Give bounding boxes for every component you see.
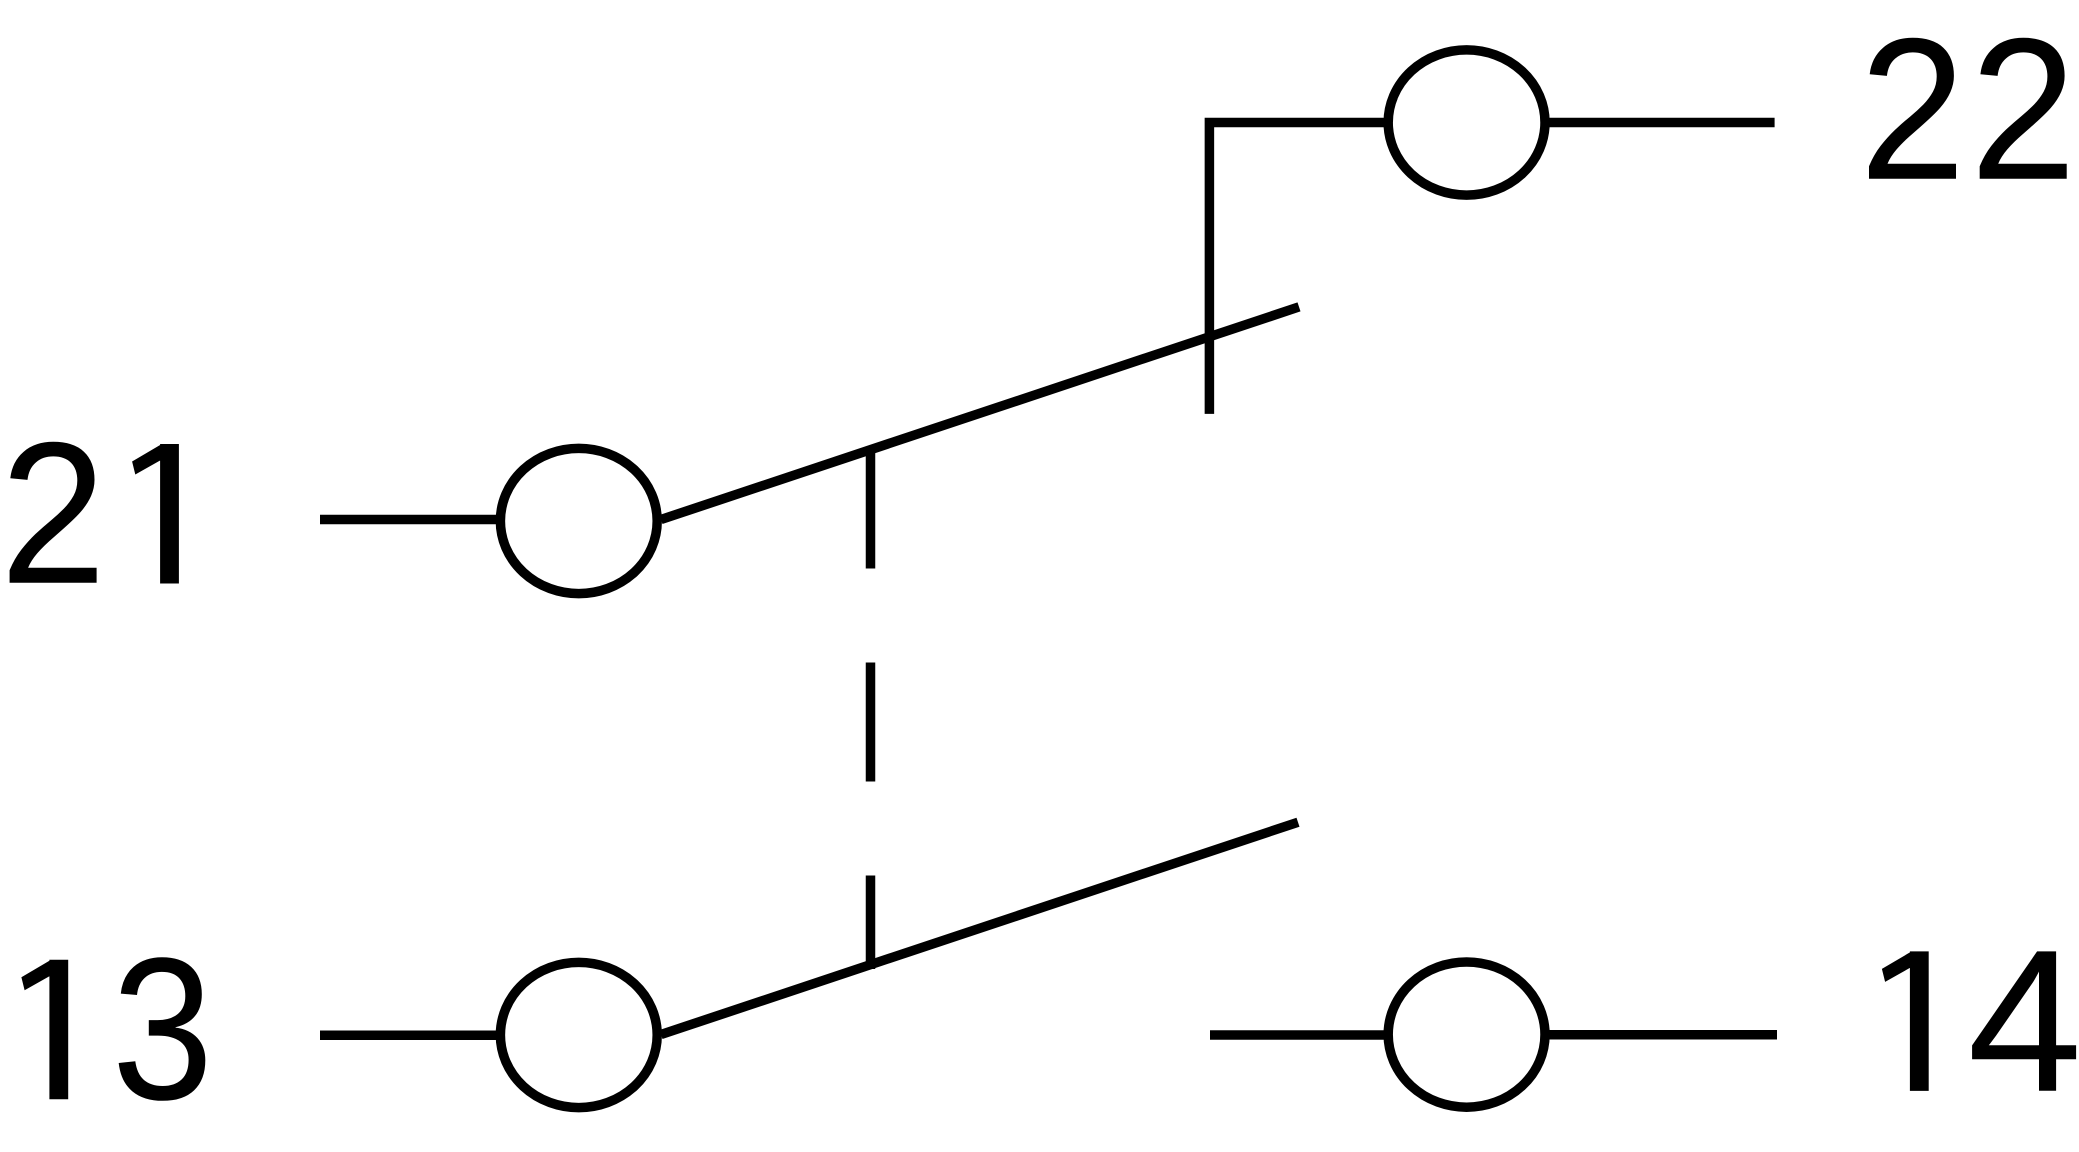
label 22: [1869, 38, 2067, 179]
contact circle: terminal 14: [1388, 962, 1545, 1107]
contact circle: terminal 21: [500, 448, 657, 593]
contact circle: terminal 13: [500, 962, 657, 1107]
label 13: [21, 957, 205, 1101]
wire: lead of terminal 22: [1545, 118, 1775, 128]
wire: lead of terminal 13: [320, 1030, 500, 1040]
wire: NC fixed contact bar and corner to terminal 22: [1209, 123, 1390, 414]
wire: lead left of terminal 14: [1210, 1030, 1390, 1040]
wire: lead right of terminal 14: [1545, 1030, 1777, 1040]
switch lever: NO moving contact 13-14: [661, 822, 1298, 1034]
label 14: [1882, 951, 2076, 1091]
wire: lead of terminal 21: [320, 515, 500, 525]
mechanical link (dashed actuator): [866, 450, 876, 970]
switch lever: NC moving contact 21-22: [661, 307, 1299, 520]
label 21: [10, 442, 179, 584]
contact circle: terminal 22: [1388, 50, 1545, 195]
